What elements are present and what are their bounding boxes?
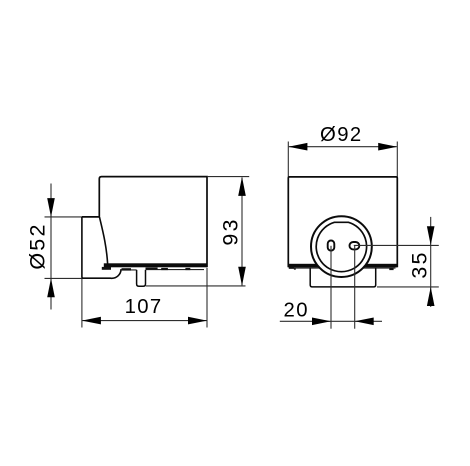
- dim 93 arrow up: [238, 177, 246, 196]
- dim 20 arrow right: [355, 318, 374, 326]
- dim 107 left extension line: [81, 279, 83, 328]
- body outline (side view container): [82, 177, 207, 268]
- right mounting slot: [350, 242, 360, 249]
- front underside dash left: [289, 267, 294, 269]
- svg-text:Ø92: Ø92: [320, 124, 363, 146]
- dim 35 top extension line: [354, 244, 439, 246]
- dim 20 dimension line: [280, 320, 382, 322]
- dim 93 top extension line: [208, 176, 249, 178]
- wall plate outer circle: [311, 216, 372, 277]
- dim 93 arrow down: [238, 267, 246, 286]
- dim Ø92 dimension line: [289, 146, 397, 148]
- dim 93 bottom extension line: [146, 285, 246, 287]
- svg-text:93: 93: [218, 217, 242, 245]
- rim underside line left of pump: [121, 269, 137, 271]
- dim Ø92 left extension line: [287, 142, 289, 177]
- pump outlet: [137, 270, 146, 286]
- dim Ø52 dimension line: [50, 184, 52, 310]
- front underside dash right: [389, 268, 393, 270]
- underside thick seg right of pump: [146, 268, 158, 270]
- svg-text:20: 20: [284, 300, 309, 322]
- dim Ø92 arrow right: [378, 143, 397, 151]
- underside dash 1: [122, 268, 132, 270]
- svg-text:35: 35: [408, 250, 432, 278]
- svg-text:107: 107: [125, 296, 163, 318]
- bottom rim thick band: [104, 263, 207, 267]
- left mounting slot: [328, 241, 335, 251]
- dim Ø92 right extension line: [396, 142, 398, 177]
- wall plate inner circle: [316, 222, 366, 271]
- base pedestal: [310, 268, 376, 287]
- wall plate outline: [82, 217, 121, 278]
- front body bottom rim band: [288, 264, 397, 268]
- dim 35 arrow bottom: [427, 287, 435, 306]
- rim underside line right of pump: [146, 269, 205, 271]
- dim Ø52 bottom extension line: [45, 277, 91, 279]
- dim 20 right extension line: [354, 246, 356, 329]
- dim 107 arrow right: [188, 317, 207, 325]
- front body outline: [288, 177, 397, 267]
- dim Ø92 arrow left: [288, 143, 307, 151]
- dim 107 right extension line: [206, 268, 208, 328]
- dim 93 dimension line: [241, 178, 243, 286]
- dim Ø52 arrow top: [47, 198, 55, 217]
- svg-text:Ø52: Ø52: [25, 222, 49, 269]
- dim Ø52 arrow bottom: [47, 278, 55, 297]
- dim 35 dimension line: [430, 217, 432, 307]
- dim 20 left extension line: [330, 246, 332, 329]
- dim 107 dimension line: [82, 320, 206, 322]
- underside dash 2: [161, 268, 168, 270]
- front underside tick left: [294, 268, 296, 270]
- rim left lip: [102, 267, 111, 270]
- underside dash 3: [185, 268, 190, 270]
- dim 35 arrow top: [427, 226, 435, 245]
- dim 107 arrow left: [82, 317, 101, 325]
- dim Ø52 top extension line: [45, 216, 100, 218]
- dim 35 bottom extension line: [377, 286, 439, 288]
- holder profile curve: [100, 217, 108, 263]
- dim 20 arrow left: [312, 318, 331, 326]
- front rim underside line: [289, 267, 396, 269]
